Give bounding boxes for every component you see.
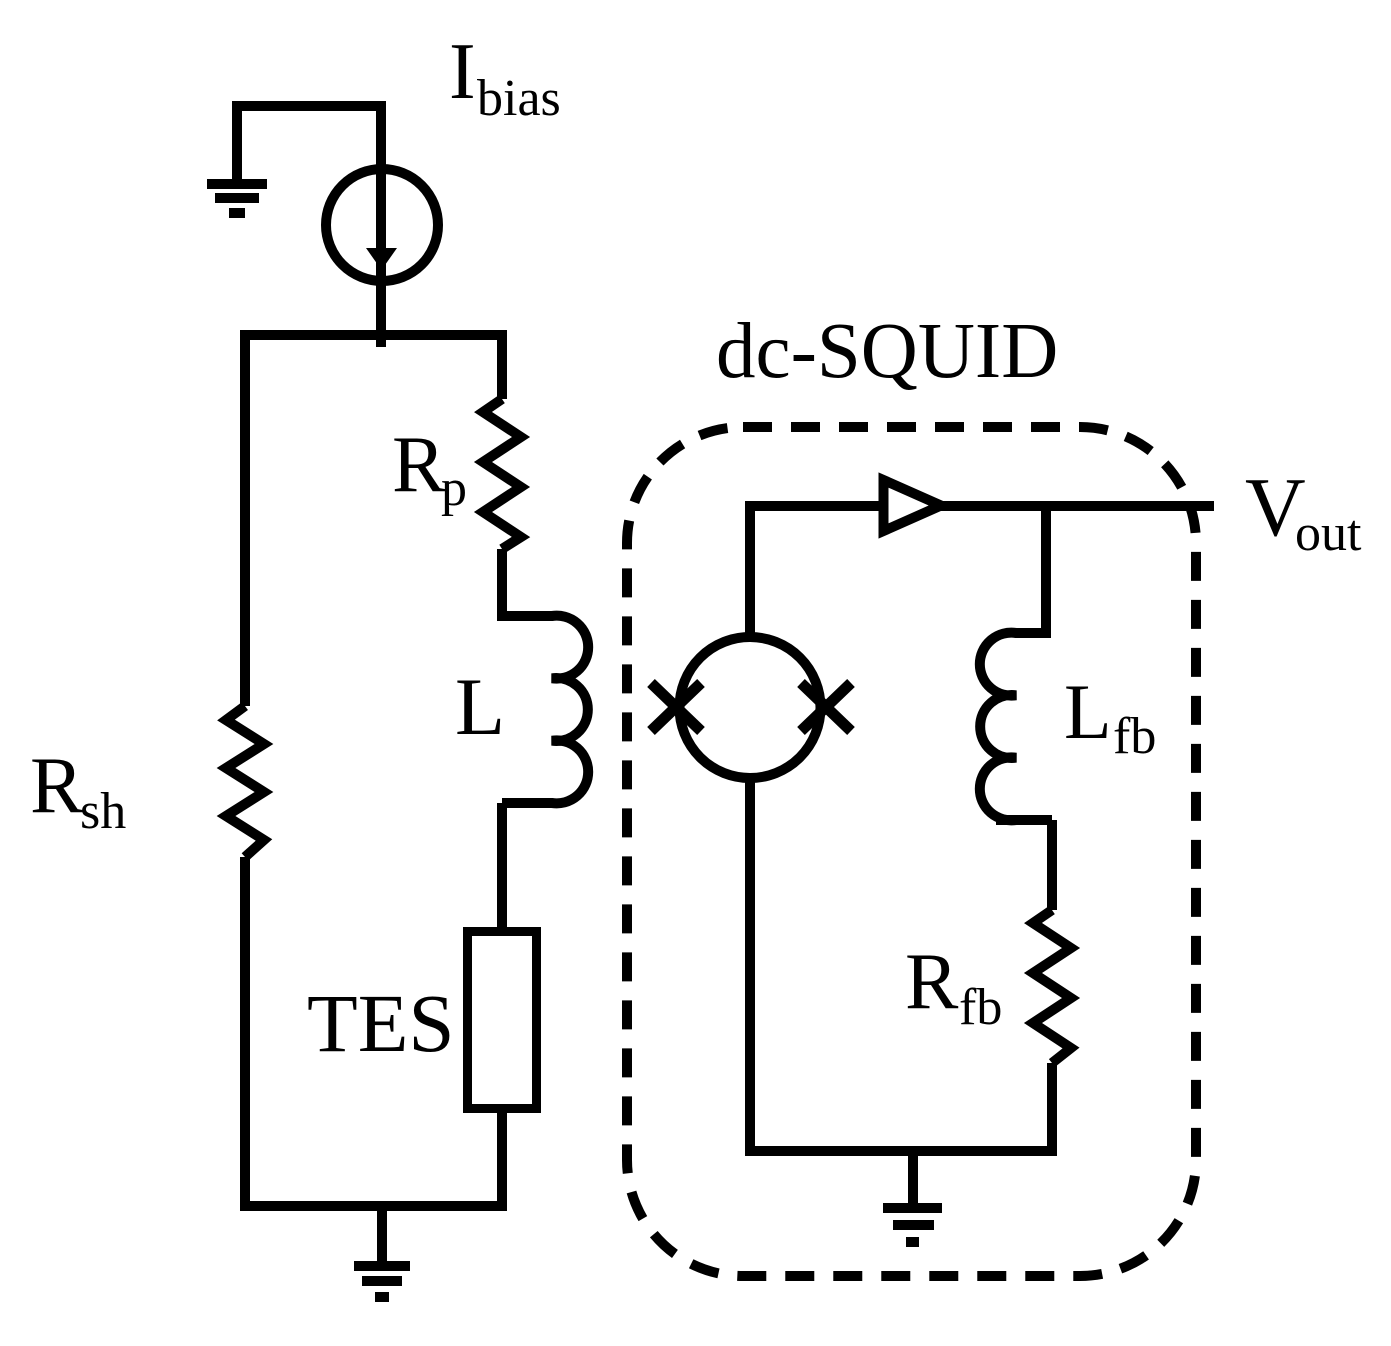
ground (top left)	[207, 184, 267, 213]
bottom wire of left circuit	[240, 1201, 507, 1211]
dc-SQUID dashed box	[627, 427, 1196, 1276]
resistor Rp	[483, 399, 521, 549]
Josephson junction X (left)	[651, 683, 701, 731]
bottom wire of squid circuit	[745, 1146, 1057, 1156]
svg-text:L: L	[455, 661, 505, 752]
svg-text:TES: TES	[307, 977, 455, 1069]
ground (bottom of left circuit)	[354, 1206, 410, 1297]
current source arrow head	[366, 248, 397, 270]
wire L to TES	[497, 803, 507, 931]
output wire with junction to Vout	[750, 501, 1214, 511]
inductor Lfb	[980, 633, 1052, 821]
svg-text:dc-SQUID: dc-SQUID	[716, 308, 1058, 395]
wire Lfb to Rfb	[1047, 820, 1057, 910]
wire left branch lower	[240, 857, 250, 1211]
wire through current source	[376, 101, 386, 347]
current source I_bias (circle)	[326, 169, 438, 281]
svg-text:R: R	[392, 421, 446, 509]
node wire (top horizontal bar)	[240, 330, 507, 340]
svg-text:bias: bias	[477, 70, 561, 127]
svg-text:fb: fb	[1113, 708, 1156, 765]
wire Rp to L	[497, 549, 507, 621]
ground (squid circuit)	[883, 1151, 942, 1242]
inductor L	[502, 616, 588, 804]
resistor Rfb	[1033, 910, 1071, 1063]
svg-text:p: p	[441, 460, 467, 517]
wire top-left hook from ground to bias source	[237, 106, 381, 184]
TES box	[468, 932, 537, 1109]
amplifier (triangle buffer)	[884, 480, 942, 531]
svg-text:L: L	[1064, 668, 1112, 755]
wire Rfb to bottom	[1047, 1063, 1057, 1156]
wire squid bottom	[745, 778, 755, 1156]
svg-text:R: R	[30, 742, 84, 830]
wire squid top	[745, 501, 755, 637]
wire right branch top	[497, 330, 507, 399]
resistor Rsh	[226, 706, 264, 857]
svg-text:fb: fb	[959, 979, 1002, 1036]
svg-text:sh: sh	[80, 783, 126, 840]
svg-text:R: R	[905, 938, 959, 1026]
wire TES to bottom	[497, 1108, 507, 1206]
wire feedback branch top	[1041, 501, 1051, 638]
wire left branch upper	[240, 330, 250, 706]
svg-text:out: out	[1295, 505, 1362, 562]
svg-text:I: I	[449, 28, 476, 116]
Josephson junction X (right)	[801, 683, 851, 731]
SQUID loop circle	[680, 637, 821, 778]
